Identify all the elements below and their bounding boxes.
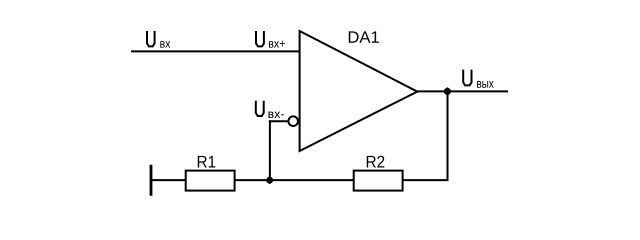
resistor R1 body (186, 171, 235, 191)
node output junction dot (443, 87, 451, 95)
label R2 (367, 156, 385, 168)
wire output from apex (417, 90, 508, 92)
wire R2 to feedback vertical (403, 179, 449, 181)
wire inverting input horizontal (269, 120, 289, 122)
resistor R2 body (354, 171, 403, 191)
node Uвх label (147, 31, 170, 48)
wire terminal to R1 (151, 179, 186, 181)
node feedback junction dot (266, 176, 274, 184)
wire R1 to R2 (235, 179, 354, 181)
node Uвх+ label (256, 31, 285, 48)
node Uвх- label (256, 101, 284, 118)
node Uвых label (463, 70, 493, 88)
op-amp DA1 triangle (300, 31, 418, 151)
label R1 (198, 156, 216, 168)
wire feedback vertical right (447, 91, 449, 180)
wire inverting input vertical to feedback node (269, 120, 271, 180)
wire input to non-inverting pin (131, 50, 300, 52)
label DA1 (349, 31, 379, 42)
terminal bar common (150, 165, 153, 196)
inversion bubble on inverting input (288, 116, 298, 126)
